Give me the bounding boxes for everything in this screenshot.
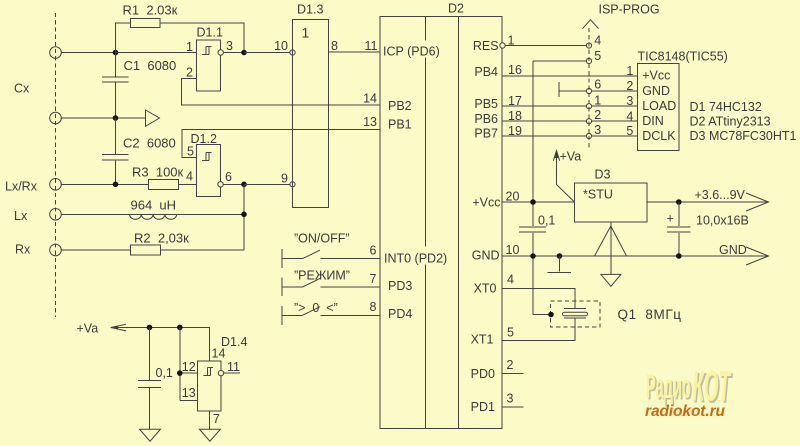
svg-text:4: 4 [594, 34, 601, 48]
svg-text:+Vcc: +Vcc [472, 196, 500, 210]
wire shield to GND [533, 314, 551, 316]
pin12 junction [177, 370, 183, 376]
regulator D3 box [575, 183, 648, 222]
svg-text:XT0: XT0 [474, 282, 497, 296]
svg-text:PD0: PD0 [471, 367, 495, 381]
terminal Rx [50, 244, 62, 256]
wire R1 to node B [160, 23, 244, 53]
terminal Lx/Rx [50, 179, 62, 191]
wire ISP pin3 to TIC DCLK pin5 [592, 135, 638, 137]
wire GND rail [502, 255, 767, 257]
watermark РадиоКОТ [646, 363, 733, 413]
svg-text:8: 8 [331, 39, 338, 53]
display module TIC8148 box [638, 64, 680, 151]
svg-text:10: 10 [274, 39, 288, 53]
svg-text:”ON/OFF”: ”ON/OFF” [294, 232, 350, 246]
capacitor 10,0x16B [667, 226, 691, 228]
svg-text:6: 6 [225, 170, 232, 184]
svg-text:C2 6080: C2 6080 [123, 136, 176, 151]
ISP pin 3 circle [586, 133, 591, 138]
svg-text:1: 1 [186, 40, 193, 54]
capacitor C1 [115, 53, 117, 77]
svg-text:D3 MC78FC30HT1: D3 MC78FC30HT1 [690, 129, 797, 143]
svg-text:964 uH: 964 uH [131, 198, 177, 213]
svg-text:10,0x16В: 10,0x16В [696, 214, 749, 228]
ISP-PROG dashed line [588, 28, 590, 151]
crystal shield dashed box [551, 301, 601, 327]
svg-text:3: 3 [507, 391, 514, 405]
wire node C to D1.3 pin9 [244, 183, 290, 185]
svg-text:”РЕЖИМ”: ”РЕЖИМ” [294, 269, 350, 283]
resistor R2 [131, 245, 161, 255]
svg-text:”> 0 <”: ”> 0 <” [294, 301, 338, 315]
resistor R3 [149, 179, 179, 189]
pin 9 circle [290, 182, 295, 187]
ISP pin 6 circle [586, 88, 591, 93]
svg-text:D2: D2 [448, 2, 464, 16]
svg-text:4: 4 [626, 109, 633, 123]
resistor R1 [131, 19, 161, 28]
op-amp U4 schmitt D1.4 [198, 361, 222, 411]
svg-text:11: 11 [365, 39, 378, 53]
op-amp U2 schmitt D1.2 [197, 145, 221, 197]
capacitor 0,1 right [519, 226, 546, 228]
ground triangle D3 [601, 274, 621, 286]
svg-text:12: 12 [182, 360, 196, 374]
input terminal dashed line [55, 13, 57, 317]
svg-text:PD3: PD3 [388, 279, 412, 293]
junction Lx node [241, 212, 247, 218]
svg-text:GND: GND [719, 243, 747, 257]
svg-text:2: 2 [626, 79, 633, 93]
svg-text:Радио: Радио [646, 367, 691, 406]
svg-text:PB2: PB2 [388, 99, 412, 113]
ISP-PROG arrow [582, 20, 598, 29]
svg-text:1: 1 [594, 93, 601, 107]
svg-text:19: 19 [508, 124, 522, 138]
ground triangle left [140, 429, 161, 441]
svg-text:1: 1 [302, 25, 310, 41]
svg-text:D2 ATtiny2313: D2 ATtiny2313 [690, 115, 771, 129]
svg-text:17: 17 [508, 94, 522, 108]
svg-text:PB5: PB5 [474, 97, 498, 111]
svg-text:+3.6...9V: +3.6...9V [695, 188, 746, 202]
wire +Va rail [112, 327, 210, 361]
+Va tap diagonal [557, 185, 575, 203]
wire node C down [243, 184, 245, 250]
svg-text:Lx: Lx [14, 209, 28, 223]
Vcc node junction [530, 199, 536, 205]
GND rail junction 3 [676, 253, 682, 259]
svg-text:ICP (PD6): ICP (PD6) [383, 45, 440, 59]
ground triangle D1.4 [199, 429, 220, 441]
wire terminal4 Lx line [61, 213, 244, 215]
svg-text:R2 2,03к: R2 2,03к [134, 231, 189, 246]
svg-text:14: 14 [212, 346, 226, 360]
ISP pin 4 circle [586, 43, 591, 48]
svg-text:PD1: PD1 [471, 400, 495, 414]
svg-text:7: 7 [370, 272, 377, 286]
+Va left arrowhead [111, 324, 126, 331]
svg-text:13: 13 [182, 386, 196, 400]
+Va rail junction 2 [177, 325, 183, 331]
svg-text:GND: GND [472, 249, 500, 263]
terminal Lx [50, 209, 62, 221]
wire PD0 stub [502, 373, 524, 375]
wire D1.2 pin5 to PB1 [182, 129, 380, 157]
wire terminal5 to R2 [61, 249, 130, 251]
svg-text:XT1: XT1 [471, 333, 494, 347]
wire ISP pin1 to TIC LOAD pin3 [592, 105, 638, 107]
wire pin13 [180, 400, 198, 402]
RES inversion bubble [500, 43, 505, 48]
svg-text:PB1: PB1 [388, 118, 412, 132]
wire crystal to XT1 [502, 319, 575, 341]
ISP pin 1 circle [586, 104, 591, 109]
svg-text:radiokot.ru: radiokot.ru [645, 403, 726, 420]
svg-text:2: 2 [594, 108, 601, 122]
GND rail junction 2 [557, 253, 563, 259]
svg-text:11: 11 [227, 360, 240, 374]
svg-text:D1.2: D1.2 [191, 132, 217, 146]
svg-text:D1.3: D1.3 [297, 3, 323, 17]
svg-text:PB4: PB4 [474, 65, 498, 79]
ISP pin 5 circle [586, 58, 591, 63]
junction C1/C2 [113, 115, 119, 121]
svg-text:RES: RES [473, 39, 499, 53]
+3.6..9V arrow [746, 193, 769, 211]
svg-text:LOAD: LOAD [642, 99, 676, 113]
svg-text:DIN: DIN [642, 114, 664, 128]
wire XT0 to crystal [502, 289, 575, 308]
svg-text:2: 2 [186, 66, 193, 80]
wire node A to D1.1 pin1 [116, 52, 197, 54]
wire PB5 to ISP pin1 [502, 105, 586, 107]
svg-text:ISP-PROG: ISP-PROG [599, 2, 660, 16]
svg-text:3: 3 [594, 123, 601, 137]
svg-text:20: 20 [506, 190, 520, 204]
wire ISP pin2 to TIC DIN pin4 [592, 120, 638, 122]
terminal Cx bottom [50, 112, 62, 124]
svg-text:DCLK: DCLK [642, 129, 676, 143]
shield junction dot [548, 312, 554, 318]
svg-text:8: 8 [370, 300, 377, 314]
wire D1.1 out to node B [223, 52, 244, 54]
svg-text:14: 14 [363, 91, 377, 105]
svg-text:C1 6080: C1 6080 [124, 58, 177, 73]
svg-text:Cx: Cx [14, 82, 30, 96]
inductor L1 964 uH [130, 214, 177, 219]
svg-text:+Va: +Va [77, 322, 99, 336]
ISP pin 2 circle [586, 119, 591, 124]
wire node B to D1.3 pin10 [244, 52, 290, 54]
wire PD1 stub [502, 406, 524, 408]
svg-text:3: 3 [226, 39, 233, 53]
terminal Cx top [50, 47, 62, 59]
svg-text:PB7: PB7 [474, 127, 498, 141]
wire terminal2 to buffer [61, 117, 145, 119]
svg-text:*STU: *STU [583, 188, 613, 202]
wire terminal3 to R3 [61, 183, 148, 185]
wire D1.2 out to node C [223, 183, 244, 185]
svg-text:D1 74HC132: D1 74HC132 [690, 100, 762, 114]
svg-text:10: 10 [506, 243, 520, 257]
wire D1.3 pin8 to ICP [329, 51, 381, 53]
svg-text:GND: GND [642, 84, 670, 98]
crystal Q1 [564, 308, 586, 310]
wire ISP pin6 to TIC GND pin2 [592, 90, 638, 92]
wire PB7 to ISP pin3 [502, 135, 586, 137]
D3 ground leads [610, 222, 612, 274]
MCU D2 box [380, 17, 502, 429]
wire D1.4 out stub [224, 372, 240, 374]
svg-text:+Va: +Va [560, 150, 582, 164]
+Va rail junction 1 [147, 325, 153, 331]
+Va arrowhead [553, 151, 559, 161]
svg-text:7: 7 [213, 412, 220, 426]
svg-text:6: 6 [370, 244, 377, 258]
svg-text:PD4: PD4 [388, 307, 412, 321]
pin 10 circle [290, 50, 295, 55]
svg-text:+: + [667, 212, 674, 226]
svg-text:13: 13 [363, 115, 377, 129]
svg-text:+Vcc: +Vcc [642, 69, 670, 83]
svg-text:TIC8148(TIC55): TIC8148(TIC55) [638, 50, 728, 64]
wire Vcc to ISP pin5 [533, 60, 586, 62]
svg-text:5: 5 [594, 49, 601, 63]
svg-text:5: 5 [507, 326, 514, 340]
svg-text:4: 4 [507, 272, 514, 286]
chip D1.3 box [293, 20, 329, 208]
wire pin12 [180, 372, 198, 374]
svg-text:Rx: Rx [15, 243, 31, 257]
GND rail junction 1 [530, 253, 536, 259]
svg-text:D3: D3 [595, 168, 611, 182]
junction at C4 [676, 199, 682, 205]
svg-text:D1.1: D1.1 [197, 26, 223, 40]
wire node A up to R1 [116, 23, 131, 53]
svg-text:6: 6 [594, 77, 601, 91]
wire PB4 to TIC +Vcc pin1 [502, 75, 638, 77]
capacitor C2 [115, 118, 117, 154]
capacitor 0,1 left [149, 327, 151, 380]
wire PB6 to ISP pin2 [502, 120, 586, 122]
svg-text:9: 9 [281, 172, 288, 186]
svg-text:INT0 (PD2): INT0 (PD2) [384, 252, 447, 266]
wire D1.4 inputs column [179, 327, 181, 400]
svg-text:Lx/Rx: Lx/Rx [5, 180, 38, 194]
svg-text:R3 100к: R3 100к [132, 165, 184, 180]
svg-text:3: 3 [626, 94, 633, 108]
svg-text:2: 2 [507, 358, 514, 372]
wire RES to ISP pin4 [505, 45, 586, 47]
wire D3 out to +3.6..9V [647, 201, 767, 203]
GND arrow right [746, 247, 769, 265]
svg-text:1: 1 [626, 64, 633, 78]
node C junction [241, 182, 247, 188]
svg-text:0,1: 0,1 [156, 366, 173, 380]
wire +Vcc pin20 to D3 [502, 201, 575, 203]
svg-text:Q1 8МГц: Q1 8МГц [618, 307, 682, 322]
svg-text:18: 18 [508, 109, 522, 123]
wire pin7 down [208, 411, 210, 429]
wire PB4 column down to Vcc node [532, 61, 534, 226]
wire terminal1 to node A [61, 52, 115, 54]
wire D1.1 pin2 to PB2 [182, 79, 381, 106]
svg-text:PB6: PB6 [474, 112, 498, 126]
wire R2 to node C column [161, 249, 245, 251]
op-amp U1 schmitt D1.1 [197, 40, 221, 91]
ISP pin 6 ground tick [558, 82, 560, 97]
svg-text:5: 5 [626, 124, 633, 138]
svg-text:R1 2.03к: R1 2.03к [123, 3, 178, 18]
node A junction [113, 50, 119, 56]
junction Lx/Rx node [113, 182, 119, 188]
svg-text:16: 16 [508, 63, 522, 77]
ground tick small [559, 256, 561, 272]
wire R3 to D1.2 pin4 [179, 183, 197, 185]
node B junction [241, 50, 247, 56]
svg-text:5: 5 [187, 145, 194, 159]
svg-text:4: 4 [186, 170, 193, 184]
buffer triangle probe [146, 110, 160, 126]
svg-text:0,1: 0,1 [538, 213, 555, 227]
